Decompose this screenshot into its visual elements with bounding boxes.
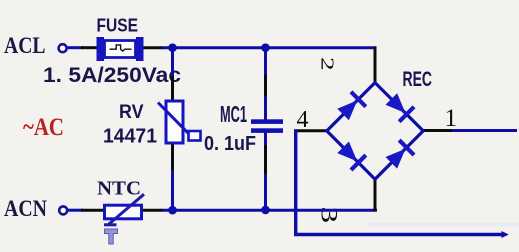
wire: MC1 bottom lead (black) xyxy=(264,145,267,176)
svg-text:1. 5A/250Vac: 1. 5A/250Vac xyxy=(43,64,181,87)
wire: DC minus arrowhead xyxy=(502,231,509,238)
rectifier REC bridge xyxy=(327,83,423,180)
wire: RV branch upper (blue) xyxy=(171,48,174,78)
wire: RV branch lower (blue) xyxy=(171,170,174,210)
wire: DC minus output (blue, down then right with arrow) xyxy=(296,129,502,234)
svg-text:ACL: ACL xyxy=(4,33,46,58)
diode D-top-left (anode pin4 side, cathode pin2 side) xyxy=(337,100,357,120)
wire: bridge pin4 lead (black horizontal) xyxy=(294,129,328,132)
diode D-top-right (anode pin2 side, cathode pin1 side) xyxy=(386,93,406,113)
svg-text:~AC: ~AC xyxy=(23,114,64,141)
svg-text:RV: RV xyxy=(119,102,144,123)
diode D-bottom-right (anode pin3 side, cathode pin1 side) xyxy=(386,149,406,169)
wire: bridge pin2 lead (black vertical) xyxy=(374,47,377,85)
wire: MC1 branch lower (blue) xyxy=(264,174,267,210)
faint artifact band xyxy=(368,223,519,226)
svg-text:ACN: ACN xyxy=(4,196,47,221)
wire: fuse right lead (black) xyxy=(143,46,163,49)
svg-text:14471: 14471 xyxy=(103,125,157,148)
wire: MC1 bottom stub (blue) xyxy=(264,132,267,147)
junction: top rail/MC1 node xyxy=(261,43,270,52)
varistor RV symbol xyxy=(158,101,201,143)
wire: bridge pin3 lead (black vertical) xyxy=(374,179,377,212)
diode D-bottom-left (anode pin4 side, cathode pin3 side) xyxy=(337,142,357,162)
junction: NTC/RV node xyxy=(168,206,177,215)
wire: ACN terminal to NTC (blue stub) xyxy=(68,209,83,212)
thermistor NTC symbol xyxy=(104,194,144,244)
wire: RV bottom lead (black) xyxy=(171,142,174,172)
wire: NTC left lead (black) xyxy=(81,209,103,212)
wire: DC plus output (blue) xyxy=(452,129,517,132)
wire: bottom rail NTC to bridge (blue) xyxy=(162,209,377,212)
svg-text:2: 2 xyxy=(318,57,337,71)
fuse F1 body xyxy=(97,37,144,61)
wire: top rail fuse to bridge (blue) xyxy=(162,46,377,49)
capacitor MC1 plates xyxy=(251,119,283,133)
wire: ACL terminal to fuse (blue stub) xyxy=(67,46,83,49)
wire: bridge pin1 lead (black horizontal) xyxy=(422,129,454,132)
junction: bottom rail/MC1 node xyxy=(261,206,270,215)
junction: fuse/RV node xyxy=(168,43,177,52)
terminal ACL xyxy=(59,44,67,52)
wire: fuse left lead (black) xyxy=(81,46,97,49)
svg-text:FUSE: FUSE xyxy=(97,15,139,35)
bridge edges xyxy=(327,83,423,180)
wire: RV top lead (black) xyxy=(171,76,174,102)
svg-text:0. 1uF: 0. 1uF xyxy=(204,132,256,155)
wire: NTC right lead (black) xyxy=(138,209,163,212)
wire: MC1 top lead (black) xyxy=(264,75,267,98)
svg-text:1: 1 xyxy=(445,105,458,132)
svg-text:NTC: NTC xyxy=(97,178,141,199)
wire: MC1 top stub (blue) xyxy=(264,97,267,121)
terminal ACN xyxy=(59,206,67,214)
svg-text:REC: REC xyxy=(403,68,433,91)
svg-text:4: 4 xyxy=(297,107,309,133)
wire: MC1 branch upper (blue) xyxy=(264,48,267,77)
svg-text:MC1: MC1 xyxy=(220,101,247,127)
